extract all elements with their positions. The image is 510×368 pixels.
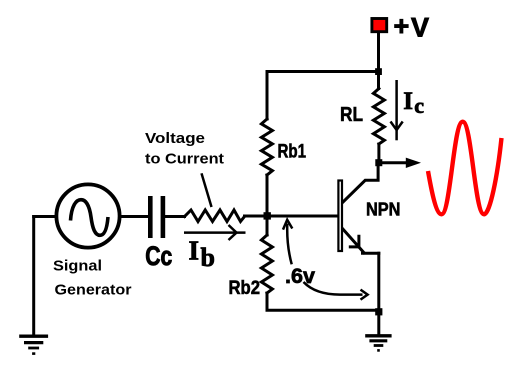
svg-text:Cc: Cc <box>145 241 172 271</box>
svg-text:b: b <box>201 243 215 272</box>
svg-text:Rb2: Rb2 <box>229 278 261 299</box>
svg-text:+: + <box>394 11 410 41</box>
svg-text:c: c <box>414 93 424 118</box>
svg-text:I: I <box>403 88 413 115</box>
svg-text:.6v: .6v <box>285 265 315 288</box>
svg-text:to Current: to Current <box>145 151 224 168</box>
svg-text:RL: RL <box>340 103 363 126</box>
svg-text:V: V <box>411 12 429 42</box>
svg-text:I: I <box>189 235 200 265</box>
svg-text:Signal: Signal <box>53 257 102 274</box>
svg-text:NPN: NPN <box>366 199 400 219</box>
svg-text:Rb1: Rb1 <box>278 142 307 163</box>
svg-text:Generator: Generator <box>55 281 132 298</box>
svg-text:Voltage: Voltage <box>145 130 205 147</box>
